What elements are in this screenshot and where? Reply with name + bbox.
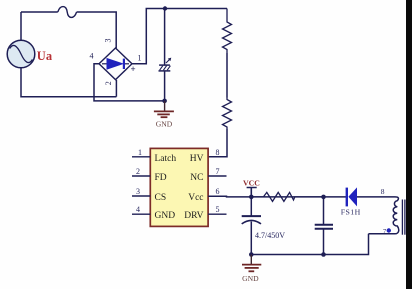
wire: pin6 Vcc row to diode (208, 195, 346, 198)
resistor chain R1 (vertical) (223, 9, 232, 53)
right black border strip (406, 0, 412, 289)
diode D2 FS1H (346, 187, 357, 206)
svg-text:FD: FD (155, 173, 167, 183)
capacitor C2 (315, 197, 333, 255)
wire: bridge pin 2 lead down (115, 80, 117, 97)
wire: Ua bottom lead and bottom rail to bridge pin 2 (21, 68, 116, 97)
wire: varistor to ground junction (164, 71, 166, 101)
IC pin 3 stub (132, 195, 150, 197)
junction dot rail under C1 (249, 252, 254, 257)
power port VCC bar (247, 188, 257, 197)
transformer T1 winding (369, 197, 399, 234)
varistor Z1 column wire (164, 9, 166, 65)
svg-text:VCC: VCC (243, 179, 260, 188)
svg-text:+: + (131, 64, 136, 74)
IC U1 body (150, 148, 208, 226)
svg-text:6: 6 (216, 187, 220, 196)
svg-text:1: 1 (138, 148, 142, 157)
resistor R2 (vertical) (223, 98, 232, 130)
svg-text:FS1H: FS1H (341, 208, 361, 217)
svg-text:1: 1 (138, 54, 142, 63)
junction dot Vcc (249, 195, 254, 200)
IC pin 7 stub (208, 175, 226, 177)
fuse F1 squiggle (58, 7, 77, 18)
svg-text:Ua: Ua (37, 49, 53, 63)
IC pin 1 stub (132, 156, 150, 158)
transformer polarity dot (387, 228, 391, 232)
wire: transformer bottom to rail (251, 234, 368, 255)
wire: bridge pin 4 to gnd rail (94, 64, 165, 101)
capacitor C1 electrolytic (242, 197, 261, 255)
svg-text:Latch: Latch (155, 154, 177, 164)
svg-text:4: 4 (136, 205, 140, 214)
svg-text:4: 4 (90, 52, 94, 61)
svg-text:CS: CS (155, 193, 167, 203)
svg-text:GND: GND (156, 119, 173, 128)
svg-text:NC: NC (190, 173, 203, 183)
junction dot at varistor tap (163, 6, 167, 10)
wire R2 to IC pin 8 (208, 129, 227, 157)
svg-text:5: 5 (216, 205, 220, 214)
AC source U a (7, 40, 35, 68)
svg-text:3: 3 (104, 39, 113, 43)
varistor Z1 symbol (159, 58, 172, 71)
svg-text:2: 2 (136, 167, 140, 176)
wire: top horizontal to bridge (77, 12, 117, 48)
svg-text:DRV: DRV (184, 211, 203, 221)
svg-text:2: 2 (104, 81, 113, 85)
wire: diode to transformer (357, 196, 395, 198)
ground GND 1 (154, 101, 174, 117)
junction dot R3 right (321, 195, 326, 200)
svg-text:GND: GND (242, 274, 259, 283)
svg-text:3: 3 (136, 187, 140, 196)
wire between R1 R2 (226, 53, 228, 98)
svg-text:GND: GND (155, 211, 176, 221)
svg-text:8: 8 (216, 148, 220, 157)
IC pin 4 stub (132, 213, 150, 215)
resistor R3 (horizontal) (251, 192, 323, 201)
junction dot rail under C2 (321, 252, 326, 257)
wire: Ua top lead (20, 12, 22, 41)
IC pin 2 stub (132, 175, 150, 177)
ground GND 2 (242, 255, 261, 272)
bridge rectifier D1 diamond (99, 48, 132, 80)
wire: top horizontal left segment (21, 11, 58, 13)
junction dot ground 1 (162, 99, 167, 104)
IC pin 5 stub (208, 213, 226, 215)
svg-text:Vcc: Vcc (188, 193, 203, 203)
transformer core line (401, 200, 403, 235)
svg-text:8: 8 (381, 187, 385, 196)
svg-text:7: 7 (216, 167, 220, 176)
wire: bridge + output up and across (132, 9, 227, 64)
svg-text:HV: HV (190, 154, 204, 164)
svg-text:4.7/450V: 4.7/450V (255, 231, 285, 240)
